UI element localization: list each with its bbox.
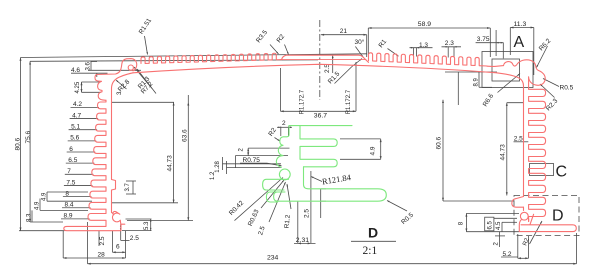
svg-text:30°: 30° [355,38,365,46]
svg-text:R1.172.7: R1.172.7 [300,89,306,114]
profile left hook outer [97,59,137,75]
dimension 4.6 leader [71,72,108,74]
svg-text:2.3: 2.3 [445,40,454,47]
svg-text:R1.2: R1.2 [284,214,292,229]
detail box A inner [492,59,520,81]
green top edge [289,125,352,127]
leader R6.2 [537,46,548,68]
svg-text:234: 234 [267,255,279,262]
dimension 4.9 upper [46,192,48,201]
label 6.5 leader [66,162,95,164]
svg-text:1.3: 1.3 [419,42,428,49]
svg-text:3.7: 3.7 [125,182,131,191]
dimension 234 [87,222,89,264]
leader R0.42 [235,178,284,221]
dimension 5.2 [517,234,519,258]
svg-text:60.6: 60.6 [436,136,443,149]
dimension 4.9 lower [39,199,41,211]
svg-text:80.6: 80.6 [15,137,22,150]
dimension 2.5 right fins [514,141,529,143]
extension 6.5 [494,217,517,219]
dimension 2.3 [442,46,462,48]
svg-text:5.2: 5.2 [503,251,512,258]
leader R0.63 [261,180,284,208]
svg-text:1.2: 1.2 [210,171,216,180]
svg-text:6.5: 6.5 [488,220,494,229]
dimension 75.6 vertical line [29,61,31,222]
dimension 6 foot [112,231,114,252]
label 8.4 leader [62,207,91,209]
leader R6.6 [498,74,521,93]
dimension 28 [62,231,64,258]
svg-text:R1.172.7: R1.172.7 [346,89,352,114]
profile left flange lower edge [95,75,106,101]
dimension 2 green top [280,127,282,137]
dimension 44.73 left [112,101,174,103]
label 5.6 leader [68,140,97,142]
leader R2.8 [116,80,127,89]
detail box C [530,164,554,176]
svg-text:4.2: 4.2 [73,101,82,108]
leader 2.5 green lower [269,182,286,222]
dimension 8.3 [31,210,33,222]
svg-text:4.25: 4.25 [75,81,81,93]
profile screw boss left [112,211,121,224]
svg-text:5.1: 5.1 [71,124,80,131]
svg-text:6: 6 [116,244,120,251]
dimension 2.5 left foot [98,231,100,246]
leader R1.51 [145,36,148,55]
svg-text:21: 21 [340,28,348,35]
svg-text:C: C [556,164,568,181]
svg-text:36.7: 36.7 [314,113,327,120]
leader R2.3 [540,84,555,98]
dimension 2 green left [247,148,249,156]
dimension 1.3 [410,47,433,49]
svg-text:8.9: 8.9 [474,77,480,86]
dimension 8.9 right [445,71,497,73]
svg-text:4.9: 4.9 [370,146,377,155]
svg-text:8: 8 [65,190,69,197]
dimension 1.28 lines [223,163,282,165]
dimension 3.6 [90,62,92,71]
svg-text:6: 6 [69,146,73,153]
leader R2 foot [530,221,543,244]
svg-text:2:1: 2:1 [363,245,378,257]
label 4.7 leader [70,118,99,120]
long extension line teeth top [21,54,368,58]
svg-text:5.6: 5.6 [70,135,79,142]
svg-text:63.6: 63.6 [182,129,189,142]
svg-text:2.5: 2.5 [130,235,139,242]
dimension 2.31 [297,201,299,243]
profile right foot [519,207,576,231]
leader R2 green [275,138,280,142]
dimension 21 [321,34,367,36]
svg-text:R0.5: R0.5 [560,85,574,92]
leader R1.3 [134,67,152,89]
svg-text:4.9: 4.9 [35,201,41,210]
svg-text:2.5: 2.5 [99,236,106,245]
svg-text:3.75: 3.75 [477,36,490,43]
dimension 80.6 vertical line [20,58,22,231]
detail box A outer [482,52,533,88]
svg-text:44.73: 44.73 [167,155,174,172]
profile hook hole [128,65,133,70]
svg-text:4.7: 4.7 [72,112,81,119]
dimension 58.9 [368,27,490,29]
label 6 leader [67,151,96,153]
profile left spine and fins [64,100,125,230]
boxed label 6.5 [485,217,494,231]
svg-text:D: D [552,208,564,225]
leader R0.5 right [543,79,559,87]
svg-text:8.9: 8.9 [64,213,73,220]
svg-text:11.3: 11.3 [514,21,527,28]
svg-text:2.31: 2.31 [296,237,309,244]
svg-text:4.9: 4.9 [42,192,48,201]
dimension 36.7 [280,68,282,111]
svg-text:1.28: 1.28 [215,160,221,172]
label 8.9 leader [61,218,90,220]
svg-text:7.5: 7.5 [66,179,75,186]
detail box D dashed [514,196,579,236]
profile flat zone [282,55,369,62]
svg-text:58.9: 58.9 [418,21,431,28]
dimension 2.5 green bar [320,189,322,218]
green right fins [300,126,337,167]
leader R0.75 [240,162,267,164]
detail title line [351,240,396,242]
label 8 leader [63,196,92,198]
profile left spine inner face [112,97,116,213]
green left staircase [276,126,289,168]
dimension 5.3 foot [150,219,152,231]
profile right end curl [487,60,545,89]
svg-text:A: A [514,34,525,51]
leader R1 comb [388,49,399,57]
svg-text:44.73: 44.73 [500,144,507,161]
svg-text:6.5: 6.5 [68,157,77,164]
leader R1.2 [287,184,291,209]
dimension 4.5 stack [501,222,503,231]
profile right spine and fins [529,89,546,221]
svg-text:4.6: 4.6 [71,67,80,74]
profile right inner face and ear [496,73,524,208]
leader R2 top [285,45,289,55]
green baseplate bar [274,167,387,201]
svg-text:75.6: 75.6 [25,130,32,143]
dimension 3.7 [132,181,134,194]
leader 30 deg [355,47,363,58]
label 4.2 leader [71,106,100,108]
profile hook inner [112,73,134,97]
dimension 3.75 [476,42,504,44]
dimension 4.9 green [380,139,382,159]
dimension 4.25 [81,82,83,92]
green left fins [263,179,289,202]
label 5.1 leader [69,129,98,131]
dimension 2.5 center [332,56,334,74]
label 7.5 leader [64,184,93,186]
long extension line upper [30,60,318,62]
profile right screw circle [520,212,528,220]
svg-text:2.5: 2.5 [304,209,311,218]
profile comb teeth right run [369,53,488,66]
leader R0.5 green [387,201,407,212]
leader R121.84 [311,177,322,182]
leader R1.5 [335,67,353,84]
profile comb teeth left run [141,53,282,63]
dimension 2 stack [499,232,501,247]
dimension 44.73 right [506,103,508,196]
svg-text:5.3: 5.3 [144,221,150,230]
dimension 8 stack [465,213,467,231]
dimension 63.6 left [187,95,189,221]
centerline [319,20,321,100]
svg-text:7: 7 [67,168,71,175]
green circle [279,169,290,180]
profile plate underside [133,64,495,73]
svg-text:8.4: 8.4 [65,202,74,209]
svg-text:8.3: 8.3 [27,213,33,222]
label 7 leader [65,173,94,175]
leader R3.5 [270,45,279,55]
dimension 60.6 [442,100,444,201]
leader R7.2 [137,69,156,94]
svg-text:4.5: 4.5 [496,221,502,230]
svg-text:2: 2 [282,120,286,127]
svg-text:2.5: 2.5 [514,135,523,142]
svg-text:28: 28 [98,251,106,258]
dimension 11.3 [510,27,534,29]
svg-text:D: D [368,225,378,241]
svg-text:3.6: 3.6 [86,61,92,70]
dimension 2.5 right foot [120,224,122,240]
